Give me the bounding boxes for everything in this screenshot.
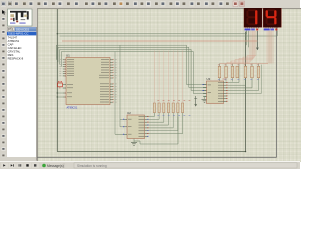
svg-text:AT89C51: AT89C51	[67, 106, 78, 110]
sheet border right edge	[276, 8, 278, 157]
header title	[15, 27, 37, 31]
U3 right pins	[224, 83, 228, 102]
wire: rail to U1 pin	[57, 92, 63, 94]
U1 pin number ticks	[59, 59, 117, 102]
resistor R10	[231, 64, 234, 82]
salmon staircase rail to D1 columns	[227, 56, 256, 64]
selected row	[7, 32, 36, 36]
wire: BCD bus line 3	[60, 49, 191, 64]
U1 left pins	[63, 60, 66, 97]
U1 right pins	[110, 60, 113, 102]
D2 label	[264, 29, 270, 31]
wire: lower feed to U2	[115, 133, 124, 135]
wire: pink feed line across top	[62, 40, 257, 42]
svg-text:Message(s): Message(s)	[47, 164, 64, 168]
U3 text stripes	[208, 82, 224, 102]
wire: digit select line A	[57, 31, 246, 34]
crystal X1 at U1 left	[58, 81, 63, 88]
resistor network mid (R1-R7)	[153, 103, 183, 116]
resistor R2	[158, 103, 160, 116]
wire: D1 green pair risers	[247, 31, 249, 48]
resistor reference labels right row	[218, 63, 259, 66]
svg-text:U3: U3	[207, 77, 211, 81]
ground under U3 left	[202, 99, 208, 102]
list body	[7, 32, 36, 158]
resistor R6	[177, 103, 179, 116]
microcontroller U1	[59, 54, 117, 110]
list rows	[8, 35, 24, 60]
U1 right pin state marks	[112, 59, 115, 102]
ground under U2	[131, 142, 137, 145]
resistor R4	[167, 103, 169, 116]
D2 pin dashes	[265, 27, 278, 28]
svg-text:U1: U1	[66, 54, 70, 58]
resistor R7	[182, 103, 184, 116]
resistor R1	[153, 103, 155, 116]
resistor R14	[257, 64, 260, 82]
U3 left pins	[203, 85, 207, 97]
red segment bundle under display D1	[250, 31, 256, 63]
U2 left pins	[124, 119, 128, 134]
resistor reference labels mid row	[157, 99, 190, 102]
resistor R12	[244, 64, 247, 82]
svg-text:RESPACK-8: RESPACK-8	[8, 56, 24, 60]
svg-text:U2: U2	[127, 111, 131, 115]
resistor R13	[251, 64, 254, 82]
U1 left pin state marks	[64, 59, 67, 97]
7-segment display D2 digit 4	[263, 8, 281, 31]
resistor R8	[218, 64, 221, 82]
decoder U2	[123, 111, 148, 142]
wire: drop to U2 input 1	[120, 45, 124, 119]
U3 ref text speck	[223, 78, 227, 81]
D1 pin dashes	[246, 27, 259, 28]
mid resistor salmon risers	[154, 51, 182, 104]
wire: BCD bus line 1	[56, 45, 186, 60]
preview pane	[8, 9, 33, 26]
U2 right pins	[145, 117, 149, 137]
wires: bundle drops into U3 BCD inputs	[187, 45, 207, 93]
wires: U3 outputs up to right resistor bottoms	[220, 65, 262, 94]
resistor R11	[236, 64, 239, 82]
svg-text:Simulation is running: Simulation is running	[77, 164, 107, 168]
D1 label	[245, 29, 251, 31]
wire: D1 common pin line	[256, 31, 258, 50]
sheet border bottom edge	[37, 156, 277, 158]
wire: U3 lower-left pin to ground	[205, 96, 207, 98]
U1 pin name text stripes	[67, 59, 109, 102]
wire: drop to U2 input 2	[120, 119, 124, 127]
wire: BCD bus line 4	[61, 52, 193, 67]
U2 text stripes	[128, 116, 144, 137]
resistor R9	[225, 64, 228, 82]
wire: rail to U1 pin	[57, 96, 63, 98]
wire: digit select line B	[60, 31, 278, 36]
red segment bundle under display D2	[267, 31, 273, 64]
resistor R5	[172, 103, 174, 116]
U2 gnd pin stub	[133, 139, 135, 143]
terminal symbol right of resistors	[194, 96, 197, 106]
wire: right resistor top rail	[220, 63, 269, 65]
wire: long vertical net left	[56, 9, 58, 152]
wire: BCD bus line 2	[58, 47, 189, 62]
wire: bottom common rail	[57, 151, 245, 153]
wire: digit1 common riser	[245, 32, 247, 152]
selector header: P L buttons	[8, 27, 11, 31]
wires: mid resistor bottoms to U2 outputs	[148, 116, 183, 134]
resistor network right (R8-R14)	[218, 64, 260, 82]
decoder U3	[203, 77, 228, 104]
wire: U2 bottom link	[134, 117, 178, 145]
7-segment display D1 digit 1	[244, 8, 262, 31]
resistor R3	[163, 103, 165, 116]
